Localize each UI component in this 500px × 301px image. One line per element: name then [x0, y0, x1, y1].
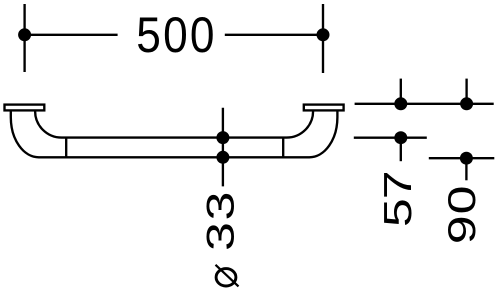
- grab bar inner contour (top edge with end bends): [35, 111, 313, 138]
- wire: tick above wall-line dot 1: [400, 79, 402, 104]
- wall flange plate left: [5, 105, 45, 111]
- diameter symbol (slash): [216, 265, 239, 287]
- node: left terminator dot of 500 dim: [18, 28, 31, 41]
- wire: vertical line through tube for diameter dim: [222, 108, 224, 187]
- wire: 90 dimension line: [429, 157, 495, 159]
- svg-text:33: 33: [198, 190, 242, 251]
- node: right terminator dot of 500 dim: [317, 28, 330, 41]
- wire: wall reference line (right figure): [355, 103, 494, 105]
- grab bar outer contour (bottom edge with end bends): [11, 111, 338, 158]
- wire: 57 dimension line: [354, 137, 427, 139]
- svg-text:500: 500: [136, 8, 216, 64]
- node: wall line dot 1: [394, 97, 407, 110]
- wire: 500 dimension line left segment: [25, 34, 118, 36]
- wall flange plate right: [304, 105, 344, 111]
- wire: tick above wall-line dot 2: [465, 79, 467, 104]
- svg-text:57: 57: [375, 171, 419, 227]
- wire: right weld joint line on tube: [282, 138, 284, 158]
- node: 57 dim dot: [394, 131, 407, 144]
- wire: left extension line of 500 dim: [23, 4, 25, 72]
- wire: 500 dimension line right segment: [225, 34, 323, 36]
- node: diameter dim lower dot: [216, 151, 229, 164]
- node: wall line dot 2: [460, 97, 473, 110]
- diameter symbol (circle): [216, 269, 236, 286]
- wire: tick below 90 dot: [465, 158, 467, 180]
- svg-text:90: 90: [439, 184, 483, 244]
- node: diameter dim upper dot: [216, 131, 229, 144]
- node: 90 dim dot: [460, 152, 473, 165]
- wire: tick below 57 dot: [400, 138, 402, 162]
- wire: right extension line of 500 dim: [322, 4, 324, 73]
- wire: left weld joint line on tube: [65, 138, 67, 158]
